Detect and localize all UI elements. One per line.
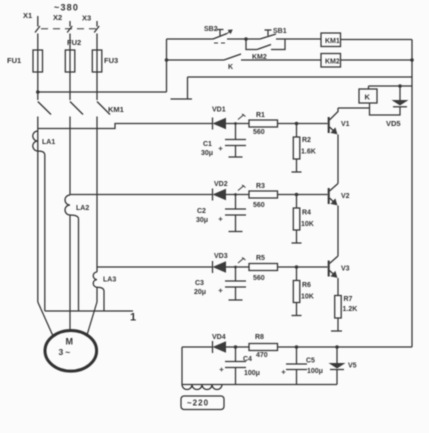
svg-text:10K: 10K (301, 221, 314, 228)
svg-text:VD2: VD2 (214, 181, 228, 188)
svg-text:SB2: SB2 (204, 26, 218, 33)
svg-text:K: K (228, 64, 233, 71)
svg-text:R4: R4 (302, 210, 311, 217)
svg-text:1.6K: 1.6K (301, 149, 316, 156)
svg-text:X2: X2 (53, 13, 62, 22)
svg-text:KM2: KM2 (252, 54, 267, 61)
svg-text:LA1: LA1 (42, 139, 55, 146)
svg-text:R5: R5 (256, 255, 265, 262)
svg-text:X1: X1 (23, 11, 32, 20)
svg-text:R6: R6 (302, 282, 311, 289)
svg-text:1.2K: 1.2K (343, 306, 358, 313)
svg-text:~380: ~380 (54, 3, 79, 13)
svg-text:560: 560 (253, 129, 265, 136)
svg-text:VD3: VD3 (214, 253, 228, 260)
svg-text:KM2: KM2 (325, 59, 340, 66)
svg-text:10K: 10K (301, 294, 314, 301)
svg-text:560: 560 (253, 202, 265, 209)
svg-text:KM1: KM1 (325, 38, 340, 45)
svg-text:R2: R2 (302, 137, 311, 144)
svg-text:SB1: SB1 (273, 28, 287, 35)
svg-text:K: K (365, 93, 371, 102)
svg-text:R7: R7 (344, 296, 353, 303)
svg-text:VD1: VD1 (212, 107, 226, 114)
svg-text:30μ: 30μ (196, 217, 208, 224)
svg-text:R3: R3 (256, 183, 265, 190)
svg-text:VD4: VD4 (212, 334, 226, 341)
svg-text:~220: ~220 (187, 399, 209, 408)
svg-text:100μ: 100μ (244, 370, 260, 377)
svg-text:C3: C3 (195, 280, 204, 287)
svg-text:1: 1 (130, 312, 136, 324)
svg-text:X3: X3 (82, 14, 91, 23)
svg-text:20μ: 20μ (194, 289, 206, 296)
svg-text:C2: C2 (197, 208, 206, 215)
svg-text:470: 470 (256, 352, 268, 359)
svg-text:FU2: FU2 (67, 38, 81, 47)
svg-text:V1: V1 (341, 121, 350, 128)
svg-text:VD5: VD5 (386, 119, 401, 128)
svg-text:C5: C5 (306, 358, 315, 365)
svg-text:FU1: FU1 (7, 56, 21, 65)
svg-text:LA3: LA3 (103, 277, 116, 284)
svg-text:560: 560 (253, 275, 265, 282)
svg-text:30μ: 30μ (201, 150, 213, 157)
svg-text:V3: V3 (341, 266, 350, 273)
svg-text:100μ: 100μ (307, 368, 323, 375)
svg-text:V2: V2 (341, 193, 350, 200)
svg-text:3~: 3~ (59, 347, 73, 357)
svg-text:R8: R8 (255, 334, 264, 341)
svg-text:FU3: FU3 (104, 56, 118, 65)
svg-text:C1: C1 (203, 141, 212, 148)
svg-text:C4: C4 (243, 356, 252, 363)
svg-text:R1: R1 (256, 112, 265, 119)
svg-text:KM1: KM1 (108, 105, 124, 114)
svg-text:LA2: LA2 (76, 205, 89, 212)
svg-text:V5: V5 (348, 363, 357, 370)
svg-text:M: M (66, 337, 74, 347)
